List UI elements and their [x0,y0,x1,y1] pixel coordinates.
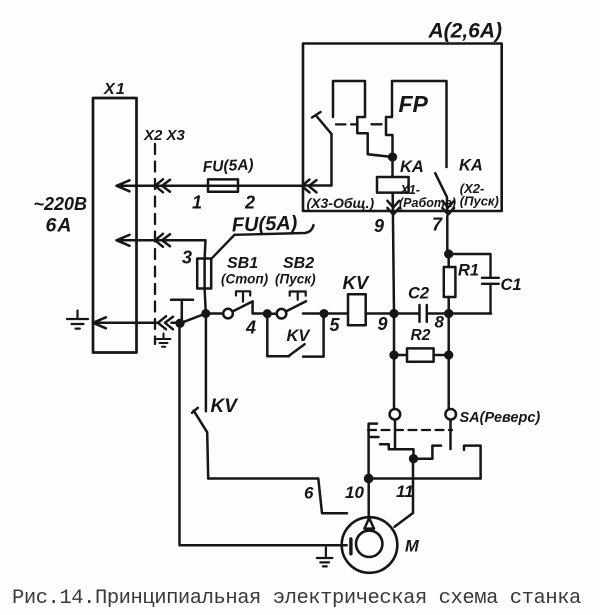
svg-text:X2 X3: X2 X3 [143,127,186,144]
fuse FU (5A) row1 [208,179,238,191]
connector arrows X2-pusk [442,201,454,215]
svg-text:R1: R1 [458,262,479,280]
underline swoosh of FU(5A) label [235,225,314,235]
contact KV (self-hold, bypass SB2) [267,314,323,357]
terminal circle SA right [445,409,456,420]
wire fuse to node [205,259,206,314]
svg-text:9: 9 [378,314,388,334]
wire 6 to motor [208,479,347,514]
pushbutton SB1 (Stop, NC) [206,312,223,315]
junction node 11 [410,455,417,462]
capacitor C1 [449,254,499,314]
fuse FU (5A) vertical [197,259,211,289]
resistor R1 [447,254,450,314]
arrow into X1 row1 [117,180,130,191]
switch SA mechanical link (dashed) [368,429,452,431]
svg-text:A(2,6A): A(2,6A) [428,20,503,43]
arrow into X1 row3 [93,317,106,328]
svg-text:1: 1 [192,193,202,213]
svg-text:KA: KA [400,158,424,176]
relay coil KA [391,157,394,177]
contact KV (in motor line) [192,314,208,479]
thermal element FP left loop [333,81,393,157]
svg-text:(X3-Общ.): (X3-Общ.) [307,195,375,211]
wire row3 (neutral from X1) [93,322,180,325]
motor terminal triangle [364,518,374,529]
svg-text:(Пуск): (Пуск) [460,194,499,209]
svg-text:(Пуск): (Пуск) [275,272,316,287]
connector chevron into box A (X3) [302,180,317,193]
junction node (SB1/SB2) [264,310,271,317]
wire node8 to C1 [449,312,491,315]
box A (automatic unit) [303,44,502,212]
svg-text:FU(5A): FU(5A) [202,156,254,176]
resistor R2 [394,354,449,357]
svg-text:6: 6 [304,484,314,503]
contact FP blade [312,112,332,134]
ground symbol (small, at X2/X3 shells) [157,334,171,347]
wire X3 inside box A [303,134,332,186]
wire net 9 down to SA [393,314,396,410]
connector chevron X2/X3 row3 [158,316,173,329]
junction node (after SB2) [321,310,328,317]
junction node 9 (main row) [391,310,398,317]
junction node (fuse/main row) [203,310,210,317]
svg-text:R2: R2 [411,327,431,344]
junction node (R2 right) [445,352,452,359]
junction node (R1/C1 top) [445,251,452,258]
wire 10 to motor [367,479,370,519]
relay coil KV [324,312,394,315]
connector chevron X2/X3 row2 [155,234,170,247]
switch SA right fixed contact [464,446,481,479]
wire row2 (net 3) [117,240,206,258]
svg-text:8: 8 [435,313,445,332]
svg-text:Рис.14.Принципиальная электрич: Рис.14.Принципиальная электрическая схем… [12,587,581,610]
svg-text:2: 2 [244,193,255,213]
connector arrows X1-rabota [387,201,399,215]
arrow into X1 row2 [117,235,130,246]
svg-text:C2: C2 [408,285,429,303]
label pointer line FU(5A) [212,235,235,258]
svg-text:(Стоп): (Стоп) [221,272,269,287]
svg-text:KA: KA [459,157,483,175]
terminal T-bar on node [171,300,193,324]
wire long left (to motor brush) [180,323,347,545]
mechanical link FP (dashed) [336,123,382,125]
svg-text:KV: KV [343,272,370,293]
svg-text:KV: KV [211,396,239,417]
switch SA left fixed contact [369,424,379,479]
svg-text:KV: KV [287,327,312,345]
wire net 9 (box A to main row) [393,193,394,314]
svg-text:4: 4 [245,318,256,338]
switch SA (reversing) movable blades [395,420,451,449]
svg-text:M: M [405,538,420,556]
svg-text:~220В: ~220В [34,194,88,214]
wire row1 (net 1-2, 220V line) [117,185,302,188]
terminal block X1 [93,98,137,353]
svg-text:9: 9 [374,216,384,236]
svg-text:(Работа): (Работа) [399,196,456,210]
svg-text:X1: X1 [103,81,126,98]
motor M rotor [356,531,382,557]
pushbutton SB2 (Start, NO) [267,312,276,315]
svg-text:11: 11 [396,482,414,501]
ground symbol (motor frame) [317,548,333,567]
switch SA mid fixed contact to node 11 [380,444,414,458]
wire 11 to motor [395,459,414,527]
connector chevron X2/X3 row1 [155,179,170,192]
junction node 10 [365,475,372,482]
svg-text:SB2: SB2 [283,255,314,272]
wire node to main row [180,314,206,324]
svg-text:5: 5 [330,315,341,335]
svg-text:FP: FP [399,91,429,117]
switch SA crossover to right contact [414,446,442,459]
ground symbol (mains earth at X1) [67,311,88,329]
motor brush bar [349,539,352,554]
svg-text:SB1: SB1 [227,255,258,272]
svg-text:7: 7 [432,215,443,235]
wire net 8 down to SA [447,314,450,410]
svg-text:10: 10 [345,483,364,502]
svg-text:C1: C1 [501,276,522,294]
thermal element FP right loop [386,81,447,167]
contact KA [435,173,447,211]
junction node 8 [445,310,452,317]
terminal circle SA left [390,409,401,420]
junction node (KA coil top) [389,154,396,161]
svg-text:X1-: X1- [400,183,420,197]
svg-text:3: 3 [182,248,192,268]
wire node10 bottom link [369,477,481,480]
connector line X2 X3 (dashed) [154,144,156,344]
junction node (R2 left) [391,352,398,359]
svg-text:SA(Реверс): SA(Реверс) [460,410,541,426]
capacitor C2 [394,305,449,322]
svg-text:FU(5A): FU(5A) [231,212,298,236]
svg-text:6А: 6А [46,215,73,237]
junction node (row3) [177,320,184,327]
wire net 7 (box A down) [446,216,449,254]
motor M outer housing [342,517,398,573]
